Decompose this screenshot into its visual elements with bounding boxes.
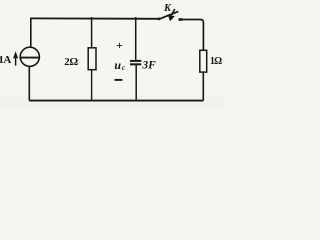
svg-text:+: + — [116, 38, 123, 52]
wire top right with corner down to 1ohm — [179, 20, 204, 51]
current source arrow 1A — [15, 57, 17, 65]
wire top left horizontal — [30, 17, 159, 19]
switch arrow head — [168, 14, 175, 21]
wire right start blob — [179, 18, 183, 21]
paper background — [0, 0, 224, 109]
resistor 1ohm box — [200, 50, 207, 72]
svg-text:1A: 1A — [0, 54, 11, 66]
wire capacitor lower stub — [135, 64, 137, 100]
svg-text:c: c — [122, 64, 125, 72]
svg-text:3F: 3F — [141, 59, 156, 71]
current source bar — [20, 57, 39, 59]
wire left branch upper stub — [30, 18, 32, 48]
wire capacitor upper stub — [135, 17, 137, 61]
resistor 2ohm box — [88, 48, 96, 70]
switch lever — [159, 11, 179, 19]
capacitor top plate — [130, 60, 141, 62]
svg-text:2Ω: 2Ω — [64, 56, 78, 68]
svg-text:1Ω: 1Ω — [210, 56, 222, 67]
svg-text:K: K — [163, 3, 172, 14]
switch arrow shaft — [171, 9, 174, 15]
minus sign of uc — [115, 79, 123, 81]
current source circle — [20, 47, 39, 66]
wire left branch lower stub — [28, 66, 30, 100]
capacitor bottom plate — [130, 63, 141, 65]
wire 2ohm lower stub — [91, 70, 93, 101]
faint scan shade bottom — [0, 96, 224, 109]
switch left contact dot — [158, 18, 161, 21]
svg-text:u: u — [114, 58, 121, 72]
wire 2ohm upper stub — [91, 17, 93, 48]
wire bottom — [29, 100, 203, 102]
wire 1ohm lower stub — [202, 72, 204, 101]
